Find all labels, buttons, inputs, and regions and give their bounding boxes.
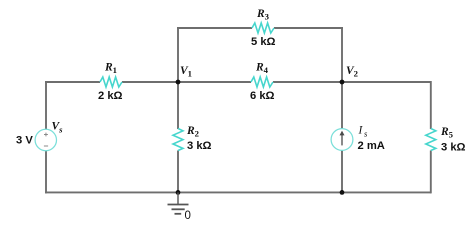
svg-text:2 mA: 2 mA (358, 140, 385, 152)
svg-text:5 kΩ: 5 kΩ (251, 36, 276, 48)
wire: top loop left vertical (177, 28, 179, 82)
wire: main rail V1 to R4 (178, 81, 251, 83)
wire: Is branch lower (341, 151, 343, 194)
ground node 0 (168, 192, 191, 222)
node V1 (176, 65, 192, 84)
junction: R2 to ground rail (176, 190, 181, 195)
wire: R5 branch lower (430, 151, 432, 194)
wire: R2 branch upper (177, 82, 179, 129)
wire: main rail between R1 and V1 (122, 81, 178, 83)
wire: top rail left of R3 (177, 27, 252, 29)
svg-text:6 kΩ: 6 kΩ (250, 90, 275, 102)
resistor R1 (98, 62, 123, 103)
wire: main rail R4 to V2 (273, 81, 342, 83)
resistor R4 (250, 62, 275, 103)
svg-text:3 kΩ: 3 kΩ (441, 142, 466, 154)
svg-text:R4: R4 (255, 62, 269, 76)
junction: Is to bottom rail (340, 190, 345, 195)
wire: left rail upper (corner to Vs) (45, 81, 47, 130)
resistor R5 (426, 126, 466, 154)
svg-text:R1: R1 (104, 62, 117, 76)
svg-text:R5: R5 (440, 126, 454, 140)
wire: main rail V2 to right corner (342, 81, 431, 83)
svg-text:Is: Is (358, 125, 369, 139)
node V2 (340, 65, 358, 84)
svg-text:3 kΩ: 3 kΩ (187, 140, 212, 152)
svg-text:Vs: Vs (52, 121, 64, 135)
wire: Is branch upper (341, 82, 343, 129)
svg-text:0: 0 (185, 210, 191, 222)
wire: top rail right of R3 (274, 27, 343, 29)
svg-text:V2: V2 (346, 65, 358, 79)
wire: R2 branch lower (177, 151, 179, 194)
voltage source Vs (16, 121, 63, 151)
svg-text:V1: V1 (180, 65, 192, 79)
svg-text:3 V: 3 V (16, 135, 33, 147)
svg-text:2 kΩ: 2 kΩ (98, 90, 123, 102)
svg-text:R3: R3 (256, 8, 270, 22)
current source Is (331, 125, 385, 153)
wire: main horizontal rail left segment (45, 81, 100, 83)
resistor R3 (251, 8, 276, 48)
svg-text:R2: R2 (186, 125, 199, 139)
resistor R2 (173, 125, 212, 152)
wire: left rail lower (Vs to bottom) (45, 151, 47, 194)
wire: bottom rail (45, 191, 431, 193)
wire: R5 branch upper (430, 81, 432, 129)
wire: top loop right vertical (341, 28, 343, 82)
